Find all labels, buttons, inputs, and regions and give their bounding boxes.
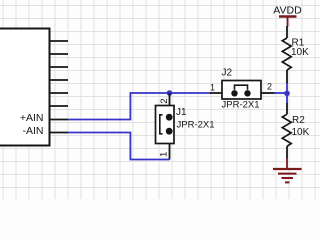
J2 pad 2 [244, 90, 250, 96]
resistor R2 10K [282, 103, 309, 159]
pin +AIN of IC box [50, 119, 69, 121]
svg-text:2: 2 [159, 98, 170, 103]
J2 shunt bracket [235, 85, 248, 90]
J1 shunt bracket [160, 115, 163, 134]
ground bar 4 [285, 181, 290, 183]
J1 pin 2 lead [169, 93, 171, 117]
svg-text:1: 1 [210, 83, 215, 93]
resistor R1 10K [282, 26, 309, 83]
ground bar 3 [282, 177, 294, 179]
AVDD stem [287, 17, 289, 27]
wire -AIN net: pin to J1.1 [68, 133, 170, 160]
pin 2 of IC box [50, 53, 69, 55]
pin 4 of IC box [50, 79, 69, 81]
pin 3 of IC box [50, 66, 69, 68]
svg-text:10K: 10K [292, 127, 310, 138]
wire J2.2 to divider node [275, 92, 288, 94]
wire +AIN net: pin to J1.2/J2.1 [68, 93, 210, 120]
R1 top lead [286, 26, 288, 38]
svg-text:2: 2 [267, 82, 272, 92]
J1 pad 1 [166, 128, 173, 135]
AVDD bar [279, 15, 297, 17]
ground bar 1 [273, 168, 302, 170]
pin -AIN of IC box [50, 132, 69, 134]
svg-text:JPR-2X1: JPR-2X1 [177, 120, 215, 131]
svg-text:AVDD: AVDD [273, 5, 302, 17]
J2 body [222, 81, 261, 100]
R1 zigzag body [282, 38, 291, 70]
IC box (partial, unlabeled connector/component) [0, 29, 50, 146]
jumper J1 (JPR-2X1, vertical) [156, 93, 215, 160]
R2 top lead [286, 103, 288, 114]
wire divider node vertical [286, 82, 288, 104]
J1 body [156, 106, 175, 144]
svg-text:J1: J1 [176, 107, 187, 118]
svg-text:10K: 10K [291, 47, 309, 58]
pin 5 of IC box [50, 92, 69, 94]
svg-text:-AIN: -AIN [23, 125, 44, 137]
svg-text:+AIN: +AIN [20, 112, 44, 124]
pin 1 of IC box [50, 40, 69, 42]
pin 6 of IC box [50, 105, 69, 107]
R2 zigzag body [282, 114, 291, 146]
J2 pin 1 lead [210, 92, 222, 94]
svg-text:J2: J2 [222, 68, 233, 79]
junction at divider node [284, 91, 290, 97]
power port AVDD [273, 5, 302, 27]
svg-text:1: 1 [159, 152, 170, 157]
junction at J1 pin 2 [167, 90, 173, 96]
R1 bottom lead [286, 70, 288, 83]
svg-text:JPR-2X1: JPR-2X1 [222, 100, 260, 111]
R2 bottom lead [286, 146, 288, 158]
jumper J2 (JPR-2X1, horizontal) [210, 68, 275, 111]
J1 pad 2 [166, 114, 173, 121]
J1 pin 1 lead [169, 131, 171, 160]
ground stem [286, 158, 288, 169]
ground bar 2 [278, 173, 297, 175]
svg-text:R2: R2 [292, 115, 305, 126]
J2 pad 1 [231, 90, 237, 96]
J2 pin 2 lead [261, 92, 275, 94]
ground symbol [273, 158, 302, 182]
